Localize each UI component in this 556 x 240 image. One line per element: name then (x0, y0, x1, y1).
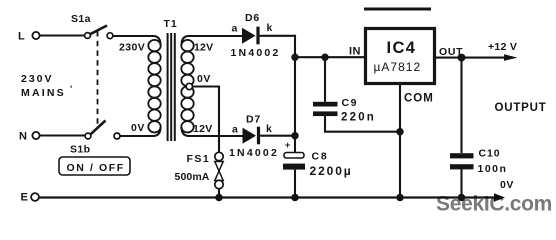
node fuse-rail junction (215, 194, 223, 202)
wire L to switch (40, 34, 85, 36)
label 230V mains left (21, 73, 72, 99)
node OUT-C10 junction (458, 54, 466, 62)
svg-text:COM: COM (404, 93, 434, 105)
svg-text:µA7812: µA7812 (374, 60, 422, 74)
top border bar segment (364, 8, 431, 11)
svg-text:500mA: 500mA (175, 171, 210, 183)
switch S1b (70, 121, 120, 156)
svg-text:': ' (70, 84, 72, 94)
primary winding (148, 40, 160, 133)
svg-text:k: k (267, 22, 273, 34)
secondary winding (181, 40, 193, 133)
svg-text:L: L (18, 31, 25, 43)
svg-text:230V: 230V (119, 42, 145, 54)
op-amp regulator IC4 box (366, 29, 435, 84)
svg-text:D7: D7 (246, 114, 261, 126)
svg-text:IN: IN (349, 46, 361, 58)
wire switch to transformer primary bottom (121, 127, 161, 136)
wire D7 cathode to main node (260, 135, 295, 137)
capacitor C10 (450, 58, 507, 175)
wire D6 cathode to main node (260, 35, 295, 37)
svg-text:E: E (21, 192, 28, 204)
svg-text:k: k (266, 123, 272, 135)
node C9 top junction (321, 54, 328, 61)
svg-text:12V: 12V (194, 42, 213, 54)
wire C9 bottom to COM line (325, 116, 400, 132)
fuse FS1 (175, 152, 224, 188)
svg-text:ON / OFF: ON / OFF (67, 162, 125, 174)
svg-text:S1b: S1b (70, 144, 90, 156)
svg-text:+12 V: +12 V (488, 41, 517, 53)
svg-text:a: a (232, 23, 238, 35)
wire OUT to +12V arrow (435, 57, 507, 59)
svg-text:0V: 0V (500, 179, 514, 191)
wire secondary bottom to D7 (182, 127, 243, 136)
wire C8 to 0V rail (294, 170, 296, 198)
svg-text:S1a: S1a (71, 13, 91, 25)
wire main vertical rail upper (294, 35, 296, 153)
node C10-rail junction (458, 194, 466, 202)
+12V arrow (504, 54, 518, 61)
svg-text:IC4: IC4 (387, 39, 417, 57)
diode D6 (231, 12, 281, 59)
svg-text:230V: 230V (21, 73, 54, 85)
wire switch to transformer primary top (113, 36, 161, 45)
svg-text:OUTPUT: OUTPUT (495, 102, 547, 114)
svg-text:1N4002: 1N4002 (229, 147, 279, 159)
svg-text:0V: 0V (197, 73, 211, 85)
svg-text:1N4002: 1N4002 (231, 47, 281, 59)
svg-text:FS1: FS1 (187, 153, 211, 165)
svg-text:a: a (232, 124, 238, 136)
wire IN rail to IC4 (295, 56, 365, 58)
node 0V tap circle (186, 83, 192, 89)
svg-text:+: + (285, 140, 290, 150)
svg-text:100n: 100n (478, 163, 508, 175)
svg-text:SeekIC.com: SeekIC.com (436, 193, 552, 216)
wire fuse to 0V rail (218, 189, 220, 198)
svg-text:D6: D6 (245, 12, 260, 24)
svg-text:220n: 220n (341, 112, 376, 124)
capacitor C9 (313, 57, 376, 123)
node C8-rail junction (291, 194, 299, 202)
transformer T1 (119, 18, 213, 141)
terminal N (19, 131, 40, 143)
diode D7 (229, 114, 279, 160)
core laminations (167, 33, 176, 141)
wire COM to 0V rail (399, 83, 401, 198)
svg-text:T1: T1 (164, 18, 178, 30)
terminal E (21, 192, 39, 204)
dashed mechanical link S1a-S1b (97, 31, 99, 128)
svg-text:C8: C8 (312, 151, 329, 163)
wire C10 to 0V rail (460, 169, 462, 198)
capacitor C8 (283, 140, 353, 178)
svg-text:C9: C9 (342, 97, 359, 109)
svg-text:N: N (19, 131, 27, 143)
switch S1a (71, 13, 113, 39)
node COM-rail junction (396, 194, 404, 202)
wire bottom 0V rail (39, 196, 496, 198)
svg-text:MAINS: MAINS (21, 87, 66, 99)
node D7-rail junction (291, 132, 298, 139)
wire N to switch (40, 134, 85, 136)
node C9-COM junction (396, 128, 403, 135)
svg-text:12V: 12V (193, 123, 213, 135)
wire 0V tap to fuse (193, 87, 220, 153)
node rectifier-IN junction (291, 54, 298, 61)
ON/OFF box (59, 157, 130, 175)
wire secondary top to D6 (182, 36, 243, 45)
svg-text:0V: 0V (131, 122, 145, 134)
0V output arrow (494, 193, 505, 201)
svg-text:2200µ: 2200µ (310, 164, 353, 178)
svg-text:C10: C10 (479, 148, 501, 160)
terminal L (18, 31, 40, 43)
